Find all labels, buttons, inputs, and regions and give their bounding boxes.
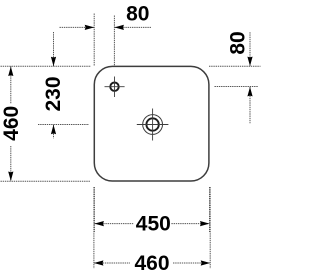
extension line: rim top edge extended right (209, 65, 261, 67)
svg-text:230: 230 (42, 76, 65, 111)
dimension 460 left: upper line segment (10, 66, 12, 104)
extension line: rim left edge extended up (93, 14, 95, 67)
extension line: bottom left for 450 (93, 187, 95, 232)
dimension 460 bottom: right line segment (173, 262, 210, 264)
dimension 80 top: left-pointing arrow (114, 25, 124, 30)
svg-text:80: 80 (126, 3, 149, 26)
dimension 230 left: up-pointing arrow (51, 125, 56, 135)
dimension 450 bottom: right line segment (171, 223, 209, 225)
dimension 460 bottom: left line segment (94, 262, 130, 264)
drain inner ring (146, 118, 158, 130)
washbasin outline (94, 66, 209, 181)
svg-text:460: 460 (134, 252, 169, 275)
svg-text:80: 80 (226, 31, 249, 54)
dimension 80 right: up-pointing arrow (247, 87, 252, 97)
dimension 80 top: right-pointing arrow (85, 25, 95, 30)
extension line: bottom right for 460 (209, 187, 211, 269)
extension line: faucet centerline extended up (113, 16, 115, 67)
extension line: rim top edge extended left (1, 65, 92, 67)
extension line: bottom right for 450 (209, 187, 211, 232)
svg-text:460: 460 (0, 106, 23, 141)
extension line: drain centerline extended left (38, 124, 89, 126)
dimension 80 right: upper line segment (249, 32, 251, 66)
faucet hole ring (110, 83, 118, 91)
drain crosshair (137, 109, 169, 141)
dimension 460 left: down-pointing arrow (8, 172, 13, 182)
dimension 80 right: lower line segment (249, 87, 251, 123)
extension line: faucet centerline extended right (215, 86, 259, 88)
dimension 460 left: up-pointing arrow (8, 67, 13, 77)
dimension 80 top: left line segment (60, 26, 95, 28)
faucet hole crosshair (105, 77, 125, 98)
dimension 450 bottom: left line segment (94, 223, 133, 225)
extension line: rim bottom edge extended left (1, 180, 91, 182)
dimension 230 left: upper line segment (53, 32, 55, 66)
dimension 450 bottom: right-pointing arrow (200, 221, 210, 226)
svg-text:450: 450 (136, 213, 171, 236)
extension line: bottom left for 460 (93, 187, 95, 269)
dimension 460 left: lower line segment (10, 146, 12, 181)
dimension 80 right: down-pointing arrow (247, 57, 252, 67)
dimension 450 bottom: left-pointing arrow (94, 221, 104, 226)
dimension 460 bottom: left-pointing arrow (94, 260, 104, 265)
dimension 230 left: down-pointing arrow (51, 57, 56, 66)
dimension 80 top: right line segment (114, 26, 151, 28)
drain outer circle (143, 115, 163, 135)
dimension 460 bottom: right-pointing arrow (201, 260, 211, 265)
dimension 230 left: lower line segment (53, 125, 55, 139)
